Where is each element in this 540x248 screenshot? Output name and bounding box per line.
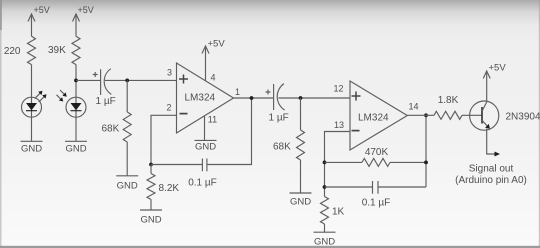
svg-text:Signal out: Signal out xyxy=(469,164,514,175)
wire 68K to gnd xyxy=(126,142,128,176)
svg-text:GND: GND xyxy=(117,181,138,192)
wire 39K to photodiode, node xyxy=(75,65,77,98)
resistor 39K xyxy=(48,36,80,64)
svg-text:1 µF: 1 µF xyxy=(269,113,289,124)
op-amp U1A LM324 xyxy=(166,63,240,133)
ground (8.2K) xyxy=(140,210,162,226)
svg-text:2: 2 xyxy=(166,103,171,113)
left edge bar xyxy=(0,0,2,248)
+5V supply arrow (pin 4) xyxy=(202,39,225,82)
node: 470K junction right xyxy=(424,161,428,165)
resistor 68K (input bias) xyxy=(102,80,132,142)
pin 13 wire xyxy=(325,132,351,197)
svg-text:0.1 µF: 0.1 µF xyxy=(188,178,217,189)
feedback wire with C2 xyxy=(151,164,202,166)
feedback right vertical wire xyxy=(425,115,427,187)
output wire pin 14 xyxy=(407,114,434,116)
svg-text:LM324: LM324 xyxy=(358,113,389,124)
ground (1K) xyxy=(314,232,336,247)
ground (68K) xyxy=(116,176,138,192)
svg-text:GND: GND xyxy=(195,142,216,153)
svg-text:2N3904: 2N3904 xyxy=(506,112,540,123)
svg-text:+5V: +5V xyxy=(34,5,50,15)
resistor 1K xyxy=(321,197,345,225)
svg-text:4: 4 xyxy=(211,73,216,83)
node: 8.2K / feedback junction xyxy=(149,163,153,167)
svg-text:39K: 39K xyxy=(48,45,66,56)
wire 1K to gnd xyxy=(324,224,326,232)
resistor 220 xyxy=(4,36,36,64)
feedback wire C2 to output xyxy=(207,98,252,165)
ground (photodiode) xyxy=(65,141,87,154)
svg-text:3: 3 xyxy=(167,68,172,78)
ground (LED D1) xyxy=(21,141,43,154)
photodiode D2 xyxy=(57,90,87,117)
capacitor C1 1uF (polarized) xyxy=(93,69,116,107)
svg-text:1K: 1K xyxy=(332,207,345,218)
svg-text:12: 12 xyxy=(333,84,343,94)
node: output U1A junction xyxy=(250,96,254,100)
svg-text:0.1 µF: 0.1 µF xyxy=(362,198,391,209)
svg-text:220: 220 xyxy=(4,46,21,57)
svg-text:470K: 470K xyxy=(365,147,389,158)
svg-text:68K: 68K xyxy=(102,124,120,135)
pin 2 wire xyxy=(151,115,177,164)
resistor 68K (second bias) xyxy=(273,98,305,160)
svg-text:11: 11 xyxy=(208,115,217,125)
svg-text:LM324: LM324 xyxy=(185,93,216,104)
svg-text:1: 1 xyxy=(235,87,240,97)
wire node to C1 xyxy=(76,79,101,81)
output wire pin 1 xyxy=(234,97,274,99)
capacitor C3 1uF (polarized) xyxy=(266,84,289,124)
svg-text:1 µF: 1 µF xyxy=(96,96,116,107)
svg-text:+5V: +5V xyxy=(78,5,94,15)
ground (68K-2) xyxy=(290,193,312,208)
+5V supply arrow (220 branch) xyxy=(28,5,50,36)
svg-text:GND: GND xyxy=(314,237,335,248)
svg-text:14: 14 xyxy=(409,102,419,112)
capacitor C2 0.1uF xyxy=(188,159,217,189)
svg-text:13: 13 xyxy=(334,120,344,130)
wire photodiode to gnd xyxy=(75,117,77,141)
feedback resistor 470K xyxy=(325,147,427,166)
svg-text:8.2K: 8.2K xyxy=(159,183,180,194)
node: 0.1uF junction left xyxy=(323,185,327,189)
svg-text:(Arduino pin A0): (Arduino pin A0) xyxy=(455,175,527,186)
wire C3 to op-amp pin 12 xyxy=(279,97,351,99)
+5V supply arrow (39K branch) xyxy=(73,5,94,36)
bottom edge bar xyxy=(0,246,540,248)
right edge bar xyxy=(539,0,540,248)
pin 11 wire to gnd xyxy=(204,116,206,141)
svg-text:68K: 68K xyxy=(273,142,291,153)
op-amp U1B LM324 xyxy=(333,81,418,150)
feedback capacitor C4 0.1uF xyxy=(325,181,427,209)
emitter wire / signal out arrow xyxy=(487,130,500,156)
LED D1 xyxy=(22,91,47,117)
svg-text:GND: GND xyxy=(140,215,161,226)
node: 68K-2 junction xyxy=(299,96,303,100)
wire LED to gnd xyxy=(31,117,33,141)
svg-text:1.8K: 1.8K xyxy=(438,95,459,106)
resistor 1.8K xyxy=(434,95,482,119)
node: 470K junction left xyxy=(323,161,327,165)
svg-text:GND: GND xyxy=(21,144,42,155)
svg-text:GND: GND xyxy=(65,144,86,155)
wire 68K-2 to gnd xyxy=(300,160,302,193)
wire 220 to LED xyxy=(31,65,33,98)
signal out label xyxy=(455,164,527,187)
wire C1 to op-amp pin 3 xyxy=(105,79,177,81)
wire 8.2K to gnd xyxy=(150,200,152,211)
node: 68K / pin3 junction xyxy=(125,79,129,83)
svg-text:+5V: +5V xyxy=(208,39,226,50)
svg-text:GND: GND xyxy=(290,197,311,208)
node: output U1B junction xyxy=(424,113,428,117)
+5V supply arrow (collector) xyxy=(483,63,506,102)
transistor Q1 2N3904 xyxy=(470,101,540,130)
resistor 8.2K xyxy=(147,165,179,200)
ground (pin 11) xyxy=(195,140,217,152)
node: photodiode / C1 junction xyxy=(74,79,78,83)
svg-text:+5V: +5V xyxy=(489,63,507,74)
